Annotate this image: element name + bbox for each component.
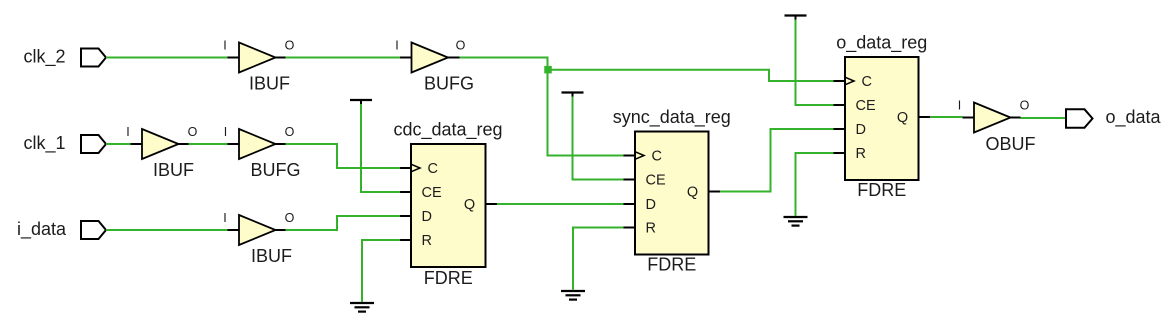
pin stub C (sync)	[624, 155, 636, 157]
buffer BUFG (clk_1) input stub	[228, 143, 240, 145]
svg-text:clk_2: clk_2	[23, 47, 65, 68]
pin stub R (cdc)	[400, 239, 411, 241]
pin stub D (cdc)	[400, 215, 411, 217]
buffer BUFG (clk_2)	[412, 43, 449, 73]
svg-text:O: O	[285, 211, 295, 225]
buffer BUFG (clk_1) output stub	[276, 143, 286, 145]
wire junction to o_data_reg C	[548, 70, 834, 81]
svg-text:O: O	[456, 39, 466, 53]
wire o_data_reg Q to OBUF	[930, 116, 963, 118]
wire OBUF to o_data port	[1021, 117, 1067, 119]
ground (sync R)	[561, 291, 585, 300]
svg-text:Q: Q	[687, 185, 698, 201]
svg-text:BUFG: BUFG	[424, 74, 474, 94]
svg-text:i_data: i_data	[17, 219, 67, 240]
pin stub Q (cdc)	[486, 203, 498, 205]
svg-text:OBUF: OBUF	[985, 134, 1035, 154]
input port clk_1	[81, 135, 106, 153]
flip-flop o_data_reg FDRE	[845, 57, 919, 180]
buffer IBUF (i_data) output stub	[276, 229, 286, 231]
buffer IBUF (clk_2)	[239, 43, 276, 73]
svg-text:FDRE: FDRE	[647, 255, 696, 275]
pin stub R (sync)	[624, 227, 636, 229]
svg-text:R: R	[856, 146, 866, 162]
svg-text:Q: Q	[897, 110, 908, 126]
buffer IBUF (i_data) input stub	[228, 229, 240, 231]
svg-text:CE: CE	[422, 185, 442, 201]
svg-text:I: I	[223, 39, 226, 53]
pin stub R (o_data)	[834, 152, 846, 154]
svg-text:C: C	[652, 149, 662, 165]
buffer IBUF (clk_1)	[142, 129, 179, 159]
wire junction to sync_data_reg C	[548, 70, 624, 156]
buffer BUFG (clk_2) output stub	[448, 57, 460, 59]
ground (cdc R)	[350, 303, 374, 312]
clock marker C (cdc)	[411, 164, 420, 172]
pin stub C (o_data)	[834, 80, 846, 82]
clock marker C (sync)	[635, 152, 644, 160]
wire i_data IBUF to cdc_data_reg D	[286, 216, 401, 230]
svg-text:R: R	[422, 233, 432, 249]
svg-text:I: I	[958, 99, 961, 113]
junction clk_2 net	[544, 66, 552, 74]
pin stub C (cdc)	[400, 167, 411, 169]
svg-text:CE: CE	[856, 98, 876, 114]
wire clk_1 BUFG to cdc_data_reg C	[286, 144, 401, 168]
output port o_data	[1066, 109, 1093, 127]
svg-text:D: D	[646, 197, 656, 213]
svg-text:O: O	[188, 125, 198, 139]
buffer OBUF output stub	[1011, 117, 1021, 119]
svg-text:o_data: o_data	[1106, 107, 1162, 128]
buffer IBUF (clk_2) input stub	[228, 57, 240, 59]
ground (o_data R)	[784, 217, 808, 226]
wire i_data port to IBUF	[106, 229, 228, 231]
clock marker C (o_data)	[845, 77, 854, 85]
wire clk_1 IBUF to BUFG	[189, 143, 228, 145]
svg-text:R: R	[646, 221, 656, 237]
svg-text:D: D	[856, 122, 866, 138]
buffer OBUF	[974, 103, 1011, 133]
svg-text:C: C	[428, 161, 438, 177]
svg-text:cdc_data_reg: cdc_data_reg	[393, 120, 502, 141]
svg-text:FDRE: FDRE	[857, 180, 906, 200]
svg-text:O: O	[1020, 99, 1030, 113]
svg-text:I: I	[126, 125, 129, 139]
wire ground to sync_data_reg R	[573, 228, 624, 291]
svg-text:O: O	[285, 125, 295, 139]
svg-text:CE: CE	[646, 173, 666, 189]
buffer OBUF input stub	[963, 117, 975, 119]
svg-text:IBUF: IBUF	[251, 246, 292, 266]
pin stub D (sync)	[624, 203, 636, 205]
svg-text:BUFG: BUFG	[250, 160, 300, 180]
svg-text:Q: Q	[464, 197, 475, 213]
buffer BUFG (clk_2) input stub	[400, 57, 412, 59]
power vcc (sync CE)	[562, 93, 584, 97]
svg-text:clk_1: clk_1	[23, 133, 65, 154]
buffer IBUF (i_data)	[239, 215, 276, 245]
pin stub CE (sync)	[624, 179, 636, 181]
svg-text:IBUF: IBUF	[249, 74, 290, 94]
pin stub D (o_data)	[834, 128, 846, 130]
wire vcc to sync_data_reg CE	[573, 97, 624, 180]
svg-text:O: O	[285, 39, 295, 53]
svg-text:FDRE: FDRE	[424, 268, 473, 288]
wire clk_1 port to IBUF	[106, 143, 131, 145]
buffer IBUF (clk_2) output stub	[276, 57, 286, 59]
wire vcc to o_data_reg CE	[796, 20, 834, 106]
input port i_data	[81, 221, 106, 239]
wire cdc_data_reg Q to sync_data_reg D	[497, 203, 624, 205]
flip-flop sync_data_reg FDRE	[635, 132, 709, 255]
wire clk_2 IBUF to BUFG	[286, 57, 401, 59]
power vcc (o_data CE)	[785, 16, 807, 20]
pin stub CE (cdc)	[400, 191, 411, 193]
input port clk_2	[81, 49, 106, 67]
buffer IBUF (clk_1) output stub	[179, 143, 189, 145]
wire clk_2 port to IBUF	[106, 57, 228, 59]
pin stub CE (o_data)	[834, 104, 846, 106]
pin stub Q (o_data)	[919, 116, 931, 118]
svg-text:IBUF: IBUF	[153, 160, 194, 180]
buffer IBUF (clk_1) input stub	[131, 143, 143, 145]
svg-text:I: I	[395, 39, 398, 53]
wire ground to o_data_reg R	[796, 153, 834, 216]
wire BUFG out to junction	[460, 58, 548, 70]
svg-text:D: D	[422, 209, 432, 225]
svg-text:sync_data_reg: sync_data_reg	[613, 107, 731, 128]
svg-text:o_data_reg: o_data_reg	[836, 33, 927, 54]
wire sync_data_reg Q to o_data_reg D	[720, 129, 834, 192]
wire vcc to cdc_data_reg CE	[361, 104, 400, 192]
svg-text:I: I	[224, 125, 227, 139]
pin stub Q (sync)	[709, 191, 721, 193]
svg-text:C: C	[862, 74, 872, 90]
power vcc (cdc CE)	[350, 100, 372, 104]
svg-text:I: I	[223, 211, 226, 225]
wire ground to cdc_data_reg R	[362, 240, 400, 302]
flip-flop cdc_data_reg FDRE	[411, 144, 486, 267]
buffer BUFG (clk_1)	[239, 129, 276, 159]
